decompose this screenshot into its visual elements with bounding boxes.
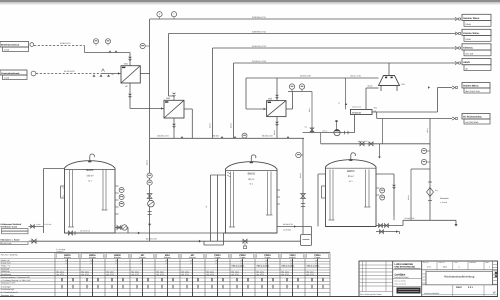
off-page label box 2 Kreislaufwasser	[462, 29, 491, 35]
connector arrow of L2	[455, 32, 458, 35]
tank BW02 right riser valve	[301, 194, 306, 199]
title mini rows left of main cell	[422, 273, 426, 275]
svg-text:150-AL-4721: 150-AL-4721	[350, 75, 361, 78]
waste bypass tie	[411, 168, 430, 170]
tank BW03 dip tube right	[365, 170, 367, 208]
compressor outlet wire to box5	[372, 111, 438, 113]
svg-text:80-AW-4731: 80-AW-4731	[283, 223, 293, 226]
svg-text:Bl. Rückstandsw.: Bl. Rückstandsw.	[463, 115, 482, 118]
tank BW01 instrument circle LI2	[119, 195, 124, 200]
compressor block V01	[351, 110, 373, 115]
svg-text:Abwasser m³/h: Abwasser m³/h	[1, 294, 14, 297]
tank BW01 instrument circle LI1	[119, 188, 124, 193]
signal table header cell boxes	[57, 253, 79, 258]
svg-text:80-PK-4702: 80-PK-4702	[64, 70, 76, 73]
svg-text:Dampf kg/h: Dampf kg/h	[1, 285, 11, 288]
second drop right of compressor	[382, 119, 384, 144]
svg-text:OMCA-A-ADCL: OMCA-A-ADCL	[307, 265, 321, 268]
svg-text:1,0: 1,0	[215, 262, 217, 265]
lower header bowtie 2	[369, 142, 373, 146]
node circle after box A	[30, 43, 34, 47]
wire y78 drop to W3 inlet	[245, 78, 247, 109]
svg-text:Auslegungsdaten / Verbrauch k: Auslegungsdaten / Verbrauch kW	[1, 276, 30, 279]
tank BW02 right wall nozzles	[277, 189, 280, 191]
tank BW01 seam line	[65, 169, 116, 171]
title block vertical divider 2	[421, 261, 423, 297]
tank BW02 dip tube left	[230, 172, 232, 228]
tank BW01 right nozzle stubs	[115, 185, 119, 187]
waste instrument circle 2	[421, 159, 426, 164]
svg-text:Anl. 4711: Anl. 4711	[82, 273, 89, 276]
svg-text:Brüdenkondensat: Brüdenkondensat	[1, 44, 19, 47]
svg-text:1,0: 1,0	[190, 262, 192, 265]
svg-text:1,0: 1,0	[315, 262, 317, 265]
svg-text:1,0: 1,0	[115, 262, 117, 265]
svg-text:Anl. 4711: Anl. 4711	[182, 273, 189, 276]
svg-text:100: 100	[65, 259, 68, 262]
top gray window edge band	[0, 0, 500, 2]
signal table outer top rule	[0, 252, 330, 254]
box6 branch drop / waste riser upper	[429, 119, 431, 144]
drain valve cluster at tank	[69, 231, 73, 235]
svg-text:80-AW-4730: 80-AW-4730	[146, 238, 157, 241]
tank BW01 vent hook	[90, 154, 95, 161]
main drain label box row2	[0, 242, 28, 245]
tank BW02 bottom outlet stub	[224, 232, 227, 234]
svg-text:W: W	[493, 291, 496, 295]
valve bowtie on riser	[147, 194, 152, 199]
svg-text:100: 100	[90, 259, 93, 262]
svg-text:z. Kanal: z. Kanal	[440, 201, 447, 204]
svg-text:von BW 50a6: von BW 50a6	[465, 121, 479, 124]
svg-text:3x80-BW-4711: 3x80-BW-4711	[252, 16, 267, 19]
svg-text:Prozesskondensat: Prozesskondensat	[1, 72, 20, 75]
wire into W3 left	[246, 108, 267, 110]
manifold corner drop right	[302, 138, 304, 234]
tank BW03 vent hook	[351, 153, 356, 160]
svg-text:0,5a6: 0,5a6	[465, 38, 471, 41]
connector arrow of L3	[455, 46, 458, 49]
svg-text:OMCA-A-ADCL: OMCA-A-ADCL	[282, 265, 296, 268]
svg-text:Anl. 4711: Anl. 4711	[132, 273, 139, 276]
W1 right outlet wire	[140, 73, 149, 75]
valve triangle on wire A	[109, 50, 112, 52]
tank BW03 bottom outlet	[376, 225, 403, 227]
orifice valve marks	[428, 181, 432, 183]
svg-text:Verdichter: Verdichter	[352, 111, 362, 114]
svg-text:2,0a6: 2,0a6	[4, 48, 10, 51]
svg-text:0815: 0815	[443, 266, 447, 269]
svg-text:Klärwasser z. Kanal: Klärwasser z. Kanal	[1, 238, 20, 241]
svg-text:V01: V01	[374, 107, 377, 110]
signal table heavy mid rule	[0, 274, 330, 276]
wire line L4 horizontal	[234, 62, 457, 64]
drain run arrow	[138, 232, 140, 235]
svg-text:1,0: 1,0	[240, 262, 242, 265]
svg-text:Kühlwas.: Kühlwas.	[463, 46, 473, 49]
off-page label box 3 Kuehlwasser	[462, 44, 491, 50]
tank BW03 seam line	[326, 167, 377, 169]
tank BW01 dip tube left	[69, 170, 71, 227]
signal table row rules	[0, 258, 330, 260]
lower header bowtie 1	[360, 142, 364, 146]
W2 right outlet	[184, 108, 192, 110]
svg-text:OMCA-A-ADCL: OMCA-A-ADCL	[257, 265, 271, 268]
svg-text:Sozialw. Wärm.: Sozialw. Wärm.	[463, 17, 480, 20]
svg-text:rein 3a6: rein 3a6	[465, 53, 474, 56]
svg-text:50 m³: 50 m³	[348, 175, 354, 178]
svg-text:f. Betrieb: f. Betrieb	[56, 250, 63, 253]
svg-text:3x80-BW-4712: 3x80-BW-4712	[252, 30, 267, 33]
svg-text:Kondensat kg/h: Kondensat kg/h	[1, 288, 14, 291]
wire A drop	[84, 46, 86, 53]
drop to compressor block	[365, 88, 367, 110]
svg-text:Verfahrensfließbild: Verfahrensfließbild	[424, 292, 439, 295]
connector arrow of L1	[455, 17, 458, 20]
svg-text:100: 100	[190, 259, 193, 262]
heat exchanger W1	[121, 66, 140, 83]
svg-text:150-AL: 150-AL	[322, 130, 328, 133]
wire line L2 vertical drop to W2	[168, 34, 170, 97]
feed label box B row1	[0, 70, 27, 75]
wire drop from L4 to vessel B1	[388, 63, 390, 76]
drain B valve	[380, 230, 384, 234]
tank BW02 right riser marks	[301, 203, 305, 205]
wire line L2 horizontal	[169, 33, 457, 35]
svg-text:BW02: BW02	[248, 173, 256, 176]
svg-text:90 m³: 90 m³	[248, 178, 254, 181]
svg-text:Zust. Änderung Dat. N: Zust. Änderung Dat. Name	[360, 293, 381, 296]
svg-text:Lentjes: Lentjes	[395, 272, 406, 276]
svg-text:2x 80-AW: 2x 80-AW	[283, 229, 291, 232]
svg-text:a: a	[459, 267, 460, 269]
svg-text:Bemerkung: Bemerkung	[1, 273, 11, 276]
tank BW02 left standpipe 2	[217, 175, 219, 241]
tank BW03 dome feed drop	[379, 144, 381, 157]
tank BW03 drain B	[376, 231, 400, 233]
svg-text:1,0: 1,0	[265, 262, 267, 265]
heat exchanger W2	[164, 100, 184, 118]
valve triangle on wire A b	[115, 50, 118, 52]
connector arrow of box6 wire	[452, 117, 455, 120]
svg-text:Rückstandsaufbereitung: Rückstandsaufbereitung	[444, 275, 475, 279]
svg-text:Gez. 01.02 Mu: Gez. 01.02 Mu	[395, 280, 406, 283]
connector arrow of box5 wire	[452, 86, 455, 89]
feed box C valve	[31, 225, 35, 229]
valve triangle m2	[221, 136, 224, 138]
vessel B1 outlet wire	[366, 87, 379, 89]
main drain arrow	[199, 240, 201, 243]
waste water riser	[429, 144, 431, 221]
arrow into W1 top	[129, 53, 131, 66]
instrument circle on riser 1	[147, 173, 152, 178]
valve triangle m1	[181, 136, 184, 138]
tank BW01 fill pipe vertical	[43, 169, 45, 234]
svg-text:N₂ / Druckluft Nm³/h: N₂ / Druckluft Nm³/h	[1, 291, 18, 294]
title block vertical divider 1	[392, 261, 394, 297]
abluft run valve	[344, 131, 346, 135]
feed label box B row2	[3, 75, 28, 80]
off-page label box 5 Brueden	[462, 83, 490, 88]
feed label box C row3	[2, 228, 29, 231]
title right edge dark blobs	[495, 272, 498, 275]
orifice diamond	[427, 188, 434, 197]
svg-text:2,0a6: 2,0a6	[4, 76, 10, 79]
tank BW01 drain long run	[65, 232, 236, 234]
svg-text:100: 100	[290, 259, 293, 262]
title right header row rule	[422, 269, 498, 271]
tank BW03 instrument circle 2	[380, 195, 385, 200]
svg-text:Abluft: Abluft	[463, 61, 470, 64]
vessel B1 funnel	[379, 76, 406, 92]
svg-text:Pos.-Nr. / Gerät-Nr.: Pos.-Nr. / Gerät-Nr.	[1, 254, 19, 257]
tank BW02 body	[226, 162, 278, 233]
instrument circle TI above L1	[171, 12, 176, 17]
tank BW03 outlet marks	[393, 216, 395, 220]
wire to box5	[438, 87, 453, 89]
feed label box C row4	[2, 231, 29, 234]
svg-text:z.Kan.: z.Kan.	[36, 223, 41, 226]
tank BW03 right nozzles	[376, 187, 379, 189]
svg-text:1x 50-AW: 1x 50-AW	[44, 223, 52, 226]
vent header wire	[288, 91, 312, 93]
W2 tick marks top	[173, 93, 176, 97]
svg-text:Brüden Wärm.: Brüden Wärm.	[463, 84, 479, 87]
fan vent stub	[336, 122, 338, 130]
drain B arrow	[396, 230, 398, 233]
outlet drop to sump	[311, 227, 313, 235]
tank BW01 fill pipe horizontal	[44, 168, 65, 170]
svg-text:100 m³: 100 m³	[86, 175, 93, 178]
svg-text:Druck / bar: Druck / bar	[1, 262, 11, 265]
svg-text:100: 100	[140, 259, 143, 262]
svg-text:Anl. 4711: Anl. 4711	[307, 273, 314, 276]
tank BW03 dip tube left	[329, 170, 331, 221]
instrument circle on L1 drop	[140, 43, 145, 48]
W3 top inlet	[276, 78, 278, 101]
svg-text:Abwasser: Abwasser	[440, 197, 449, 200]
svg-text:100: 100	[240, 259, 243, 262]
vent mark on wire B	[102, 69, 105, 72]
svg-text:Anl. 4711: Anl. 4711	[57, 273, 64, 276]
svg-text:BW03: BW03	[347, 170, 355, 173]
off-page label box 1 Sozialwasser	[462, 14, 491, 20]
svg-text:Isolierung: Isolierung	[1, 270, 10, 273]
manifold header wire	[150, 137, 304, 139]
vent drop wire	[311, 92, 313, 133]
svg-text:50-AW-4732: 50-AW-4732	[405, 217, 415, 220]
tank BW03 outlet valves	[379, 224, 383, 228]
pump circle on riser	[148, 200, 155, 207]
main drain corner drop	[203, 241, 205, 245]
side outlet pump circle	[122, 225, 127, 230]
wire y78 header	[246, 77, 379, 79]
waste run to exit	[403, 219, 456, 221]
fan circle on abluft run	[334, 130, 340, 136]
vent instrument circle 1 above W3	[289, 84, 294, 89]
W1 bottom outlet wire	[129, 83, 131, 109]
tank BW01 side outlet stub	[115, 227, 128, 229]
signal table tick marks mid	[61, 278, 63, 281]
svg-text:100-BW-4715: 100-BW-4715	[157, 135, 169, 138]
svg-text:50-a6: 50-a6	[368, 85, 373, 88]
svg-text:100: 100	[215, 259, 218, 262]
tank BW03 right standpipe	[393, 174, 395, 216]
wire line L3 horizontal	[213, 47, 457, 49]
node circle after box B	[31, 71, 36, 76]
svg-text:80-AW 1,0a6: 80-AW 1,0a6	[1, 242, 11, 245]
svg-text:Anl. 4711: Anl. 4711	[157, 273, 164, 276]
dashed feed wire B	[36, 73, 101, 75]
tank BW02 bottom right outlet	[277, 226, 312, 228]
svg-text:2x: 2x	[338, 101, 340, 104]
long lower header wire	[321, 143, 430, 145]
title lower columns	[452, 285, 454, 297]
wire A to W1 top	[85, 52, 131, 54]
svg-text:80-BW: 80-BW	[213, 135, 219, 138]
off-page label box 6 Rueckstandswasser	[462, 114, 490, 119]
instrument circle on wire A 2	[106, 39, 111, 44]
tank BW02 vent hook	[251, 155, 256, 162]
tank BW02 bottom outlet drop	[223, 233, 225, 245]
valve triangle m4	[287, 136, 290, 138]
waste exit arrow	[455, 220, 457, 224]
svg-text:100: 100	[165, 259, 168, 262]
svg-text:Anl. 4711: Anl. 4711	[107, 273, 114, 276]
tank BW03 outlet corner	[402, 220, 404, 225]
svg-text:100: 100	[265, 259, 268, 262]
title right header columns	[436, 261, 438, 270]
tank BW02 left standpipe 1	[210, 175, 212, 241]
svg-text:80-BW-4723: 80-BW-4723	[358, 140, 368, 143]
tank BW03 level gauge	[322, 186, 326, 198]
svg-text:1,0: 1,0	[65, 262, 67, 265]
vent instrument circle 2 above W3	[299, 84, 304, 89]
svg-text:Anl. 4711: Anl. 4711	[282, 273, 289, 276]
svg-text:P01: P01	[435, 189, 438, 192]
svg-text:BW01: BW01	[86, 169, 94, 172]
svg-text:Kühlwasser Rücklauf: Kühlwasser Rücklauf	[1, 223, 22, 226]
wire B into W1 left	[101, 73, 121, 75]
tank BW01 dip tube right	[102, 170, 104, 210]
tank BW01 level gauge	[61, 186, 65, 198]
main drain wire	[29, 240, 301, 242]
W2 bottom outlet to manifold	[173, 118, 175, 138]
svg-text:4711: 4711	[427, 266, 431, 269]
tank BW03 instrument circle 1	[380, 188, 385, 193]
valve triangle m3	[234, 136, 237, 138]
svg-text:1,0: 1,0	[165, 262, 167, 265]
side outlet drop	[127, 228, 129, 234]
svg-text:1,0: 1,0	[290, 262, 292, 265]
svg-text:DW-P: DW-P	[456, 286, 462, 289]
wire y78 drop to compressor	[345, 78, 347, 110]
svg-text:LURGI ENERGIE: LURGI ENERGIE	[395, 263, 414, 266]
instrument circle PI above L1	[157, 12, 162, 17]
tank BW02 right riser instrument circle	[296, 152, 301, 157]
svg-text:Werkstoff: Werkstoff	[1, 267, 10, 270]
off-page label box 4 Abluft	[462, 59, 491, 65]
main drain lower run	[204, 244, 224, 246]
title right edge mini column	[492, 261, 494, 285]
svg-text:Temp. / °C: Temp. / °C	[1, 265, 11, 268]
heat exchanger W3	[267, 101, 286, 117]
abluft run wire	[303, 132, 355, 134]
svg-text:50-BD-4722: 50-BD-4722	[352, 106, 361, 109]
valve triangles near compressor	[345, 103, 348, 105]
tank BW03 body	[326, 160, 377, 227]
wire line L4 vertical drop to manifold	[233, 63, 235, 138]
tank BW02 seam line	[226, 169, 278, 171]
wire tee down to box6 run	[376, 112, 378, 119]
valve triangle cluster on wire B	[93, 74, 96, 76]
riser lower valve marks	[148, 211, 152, 213]
wire W1 to W2	[130, 108, 164, 110]
svg-text:1,0: 1,0	[90, 262, 92, 265]
feed box C outlet wire	[29, 225, 44, 227]
main drain hanging valve	[243, 239, 247, 243]
waste bypass line	[410, 169, 412, 220]
feed label box A row1	[0, 42, 29, 48]
wire line L3 vertical drop to manifold	[212, 48, 214, 138]
waste instrument circle 1	[421, 148, 426, 153]
svg-text:Inhalt / m³: Inhalt / m³	[1, 259, 10, 262]
W2 right outlet drop	[191, 109, 193, 138]
feed label box A row2	[3, 47, 29, 52]
svg-text:Kreislw. Wärm.: Kreislw. Wärm.	[463, 32, 480, 35]
svg-text:OMCA-A-ADCL: OMCA-A-ADCL	[232, 265, 246, 268]
W3 right outlet	[286, 108, 293, 110]
compressor outlet rise	[437, 88, 439, 113]
title lower rule	[422, 284, 498, 286]
instrument circle on wire A 1	[94, 39, 99, 44]
svg-text:3x50-KW-4713: 3x50-KW-4713	[252, 45, 267, 48]
tank BW01 body	[65, 161, 116, 233]
sump box	[301, 235, 312, 246]
wire line L1 horizontal	[150, 18, 456, 20]
svg-text:0 0 1: 0 0 1	[468, 286, 474, 289]
svg-text:0,5a6: 0,5a6	[465, 23, 471, 26]
signal table column rules	[54, 253, 56, 297]
svg-text:Kühlwasser m³/h: Kühlwasser m³/h	[1, 282, 15, 285]
instrument circle on manifold	[242, 133, 247, 138]
svg-text:Anl. 4711: Anl. 4711	[257, 273, 264, 276]
tank BW03 left standpipe	[317, 174, 319, 227]
svg-text:80-BK-4701: 80-BK-4701	[60, 42, 72, 45]
svg-text:100: 100	[315, 259, 318, 262]
main drain valve	[32, 239, 36, 243]
svg-text:3x150-AL-4714: 3x150-AL-4714	[252, 60, 267, 63]
sump box inner mark	[303, 239, 310, 241]
signal table wide column center lines	[67, 259, 69, 297]
tank BW02 dip tube right	[267, 172, 269, 216]
company cell rules	[393, 269, 422, 271]
svg-text:Gepr. 01.02 Ka: Gepr. 01.02 Ka	[395, 283, 406, 286]
dashed feed wire A	[34, 45, 85, 47]
tank BW01 instrument circle LI3	[119, 202, 124, 207]
signal table bottom rule / sheet bottom border	[0, 296, 498, 298]
svg-text:über Dach 1a6: über Dach 1a6	[465, 90, 480, 93]
title main cell box	[426, 272, 493, 285]
logo dark bar	[397, 288, 421, 294]
instrument circle on riser 2	[147, 180, 152, 185]
abluft run drop	[320, 133, 322, 144]
svg-text:1: 1	[489, 266, 490, 269]
revision table columns	[362, 261, 364, 292]
tank BW02 standpipe top ties	[211, 174, 226, 176]
arrow on box5 wire	[428, 86, 430, 89]
vent drop bowtie	[310, 128, 314, 132]
